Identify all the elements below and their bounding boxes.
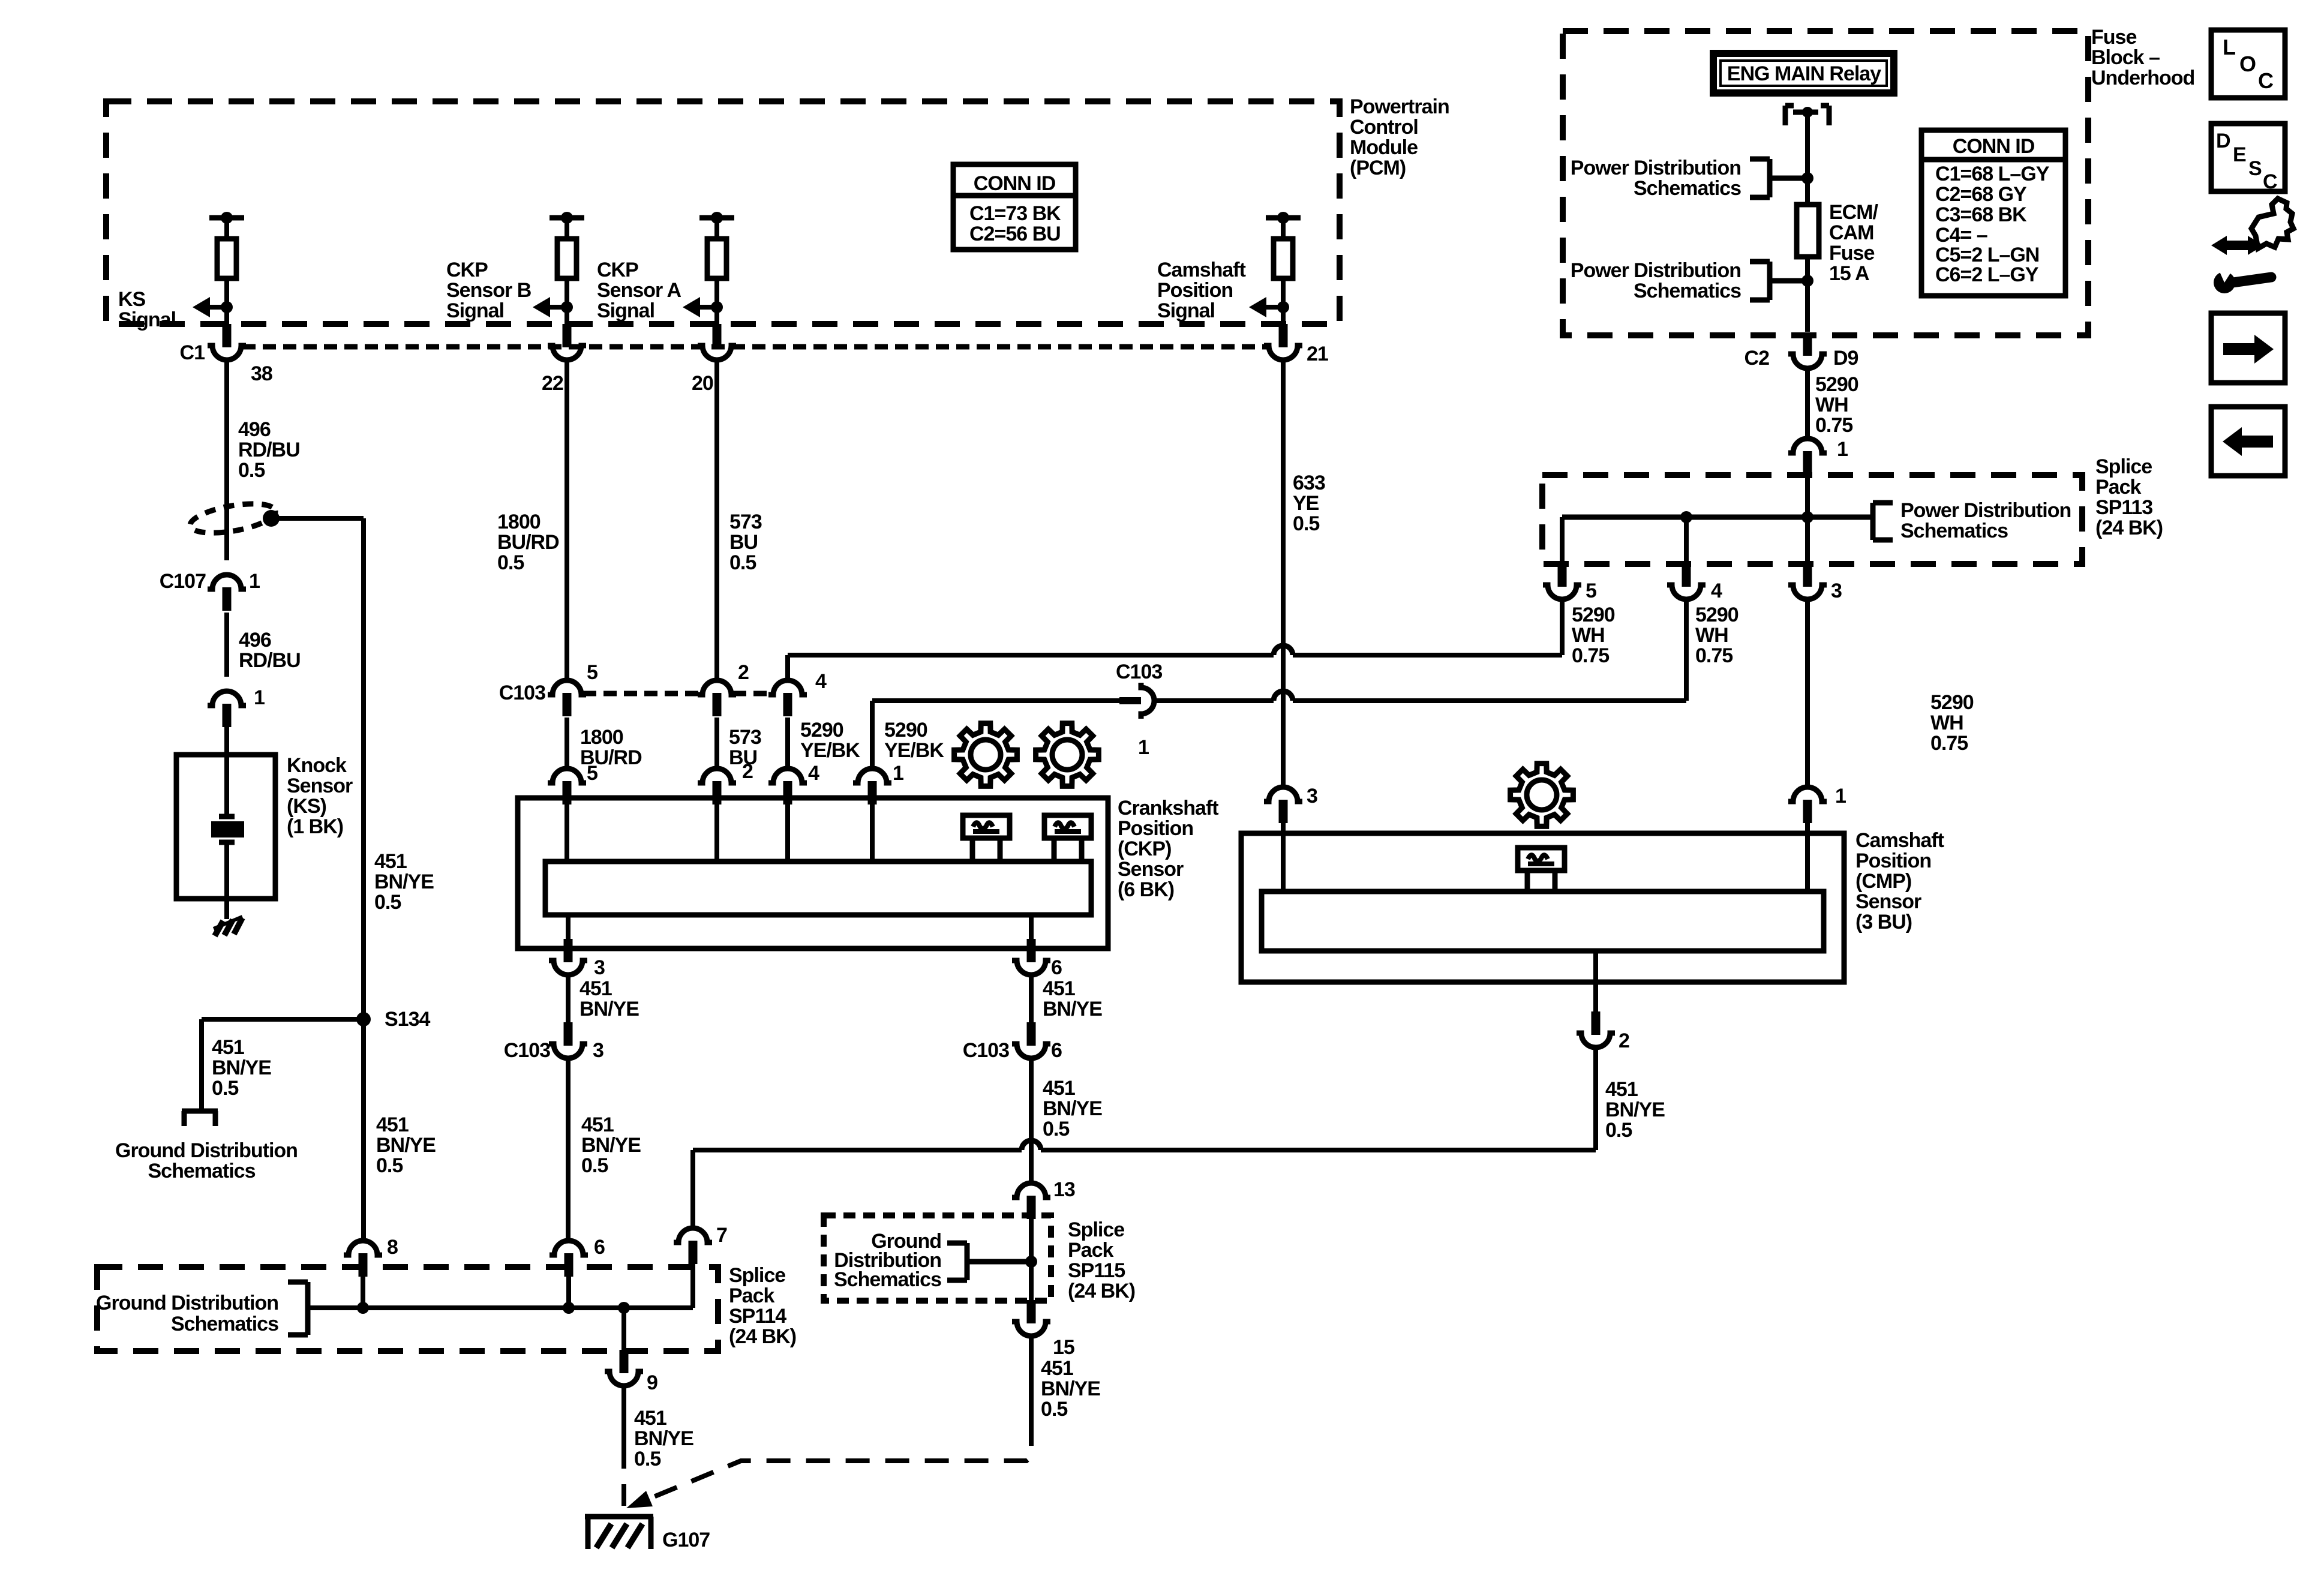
connector SP114 pin 8 — [344, 1241, 382, 1277]
connector C103 pin 1 inline — [1119, 683, 1154, 719]
svg-text:3: 3 — [594, 956, 605, 979]
label 451 BN/YE 0.5 pin15 — [1041, 1357, 1100, 1421]
label 451 BN/YE mid left — [580, 977, 639, 1020]
svg-text:6: 6 — [1051, 956, 1062, 979]
connector C103 pin 4 — [768, 680, 807, 716]
svg-text:2: 2 — [738, 661, 749, 684]
CMP pigtail pin 1 label — [1835, 785, 1846, 807]
SP115 pin 13 label — [1053, 1178, 1075, 1201]
connector SP114 pin 6 — [550, 1241, 588, 1277]
wire 633 YE — [1281, 359, 1286, 789]
wire 5290 WH top — [1805, 368, 1810, 441]
svg-text:1800: 1800 — [497, 511, 541, 533]
wire SP113 pin3 top — [1805, 517, 1810, 564]
ground ref half box — [182, 1111, 218, 1126]
svg-text:633: 633 — [1293, 472, 1325, 494]
svg-text:WH: WH — [1815, 394, 1848, 416]
svg-text:BN/YE: BN/YE — [1605, 1098, 1665, 1121]
wire CMP pin2 to SP114 pin7 — [693, 1047, 1596, 1230]
svg-text:2: 2 — [742, 760, 753, 783]
DESC icon box — [2211, 124, 2285, 193]
connector CMP pin 2 out — [1577, 1011, 1615, 1047]
svg-text:WH: WH — [1930, 712, 1963, 734]
SP115 pin 15 label — [1053, 1336, 1074, 1359]
ENG MAIN Relay box — [1710, 50, 1897, 97]
svg-text:0.5: 0.5 — [376, 1154, 403, 1177]
SP114 bus dot 6 — [563, 1302, 575, 1314]
svg-text:0.75: 0.75 — [1815, 414, 1852, 437]
wire to C103 pin6 — [1029, 975, 1034, 1022]
svg-text:(24 BK): (24 BK) — [1068, 1280, 1135, 1302]
svg-text:451: 451 — [581, 1113, 614, 1136]
svg-text:Crankshaft: Crankshaft — [1118, 797, 1218, 819]
connector CKP pigtail pin 5 — [548, 769, 586, 804]
svg-text:5: 5 — [1586, 580, 1596, 602]
label 451 BN/YE 0.5 right of KS — [374, 850, 434, 914]
svg-text:CONN ID: CONN ID — [1953, 135, 2035, 158]
svg-text:1: 1 — [1138, 736, 1149, 759]
svg-text:451: 451 — [212, 1036, 244, 1059]
svg-text:451: 451 — [1605, 1078, 1638, 1101]
wire into knock sensor — [224, 727, 229, 757]
wire pigtail 5 into CKP — [565, 803, 569, 864]
svg-text:4: 4 — [808, 762, 819, 785]
SP114 bus dot 8 — [357, 1302, 369, 1314]
CMP pin 2 out label — [1619, 1029, 1629, 1052]
pin 21 label — [1307, 343, 1328, 365]
crankshaft gear icon 1 — [954, 724, 1017, 786]
C103 pin 5 label — [587, 661, 597, 684]
svg-text:5290: 5290 — [1930, 691, 1974, 714]
svg-text:0.5: 0.5 — [374, 891, 401, 914]
Camshaft Position Signal label — [1157, 259, 1246, 322]
SP114 bus dot 9 — [618, 1302, 630, 1314]
wire pin4 lower — [785, 718, 790, 771]
svg-text:Signal: Signal — [1157, 299, 1215, 322]
wire pin7 to bus — [690, 1264, 695, 1308]
connector SP113 pin 4 — [1667, 563, 1706, 599]
SP114 label — [729, 1264, 796, 1348]
svg-text:Ground Distribution: Ground Distribution — [115, 1139, 298, 1162]
junction dot 2 — [1801, 275, 1813, 287]
ECM/CAM fuse — [1797, 205, 1819, 257]
svg-text:Schematics: Schematics — [1900, 520, 2008, 542]
svg-text:0.75: 0.75 — [1930, 732, 1968, 755]
KS pigtail pin 1 label — [254, 686, 265, 709]
label 5290 WH 0.75 pin4 — [1695, 604, 1739, 667]
SP113 label — [2095, 455, 2163, 539]
svg-text:YE: YE — [1293, 492, 1319, 515]
svg-text:5290: 5290 — [1695, 604, 1739, 626]
svg-text:496: 496 — [239, 629, 271, 652]
CONN ID box PCM — [953, 164, 1076, 250]
svg-text:496: 496 — [238, 418, 271, 441]
wire C103-3 to SP114 pin6 — [566, 1058, 571, 1243]
connector CKP pigtail pin 4 — [768, 769, 807, 804]
svg-text:G107: G107 — [662, 1529, 710, 1551]
shield drain dot — [263, 510, 280, 527]
label 451 BN/YE 0.5 at S134 — [212, 1036, 271, 1100]
svg-text:C1=73 BK: C1=73 BK — [969, 202, 1061, 225]
connector C1 pin 38 — [208, 324, 246, 360]
CMP pin 2 exit wire — [1593, 951, 1598, 1014]
pigtail pin 5 label — [587, 762, 597, 785]
wire pigtail 1 into CKP — [870, 803, 875, 864]
svg-text:1: 1 — [254, 686, 265, 709]
svg-text:Control: Control — [1350, 116, 1418, 139]
SP115 label — [1068, 1218, 1135, 1302]
svg-text:20: 20 — [692, 372, 713, 395]
svg-text:8: 8 — [387, 1236, 398, 1259]
wire pin6 to bus — [566, 1277, 571, 1308]
SP113 pin 1 label — [1837, 438, 1848, 461]
wire into SP113 — [1805, 474, 1810, 517]
LOC icon box — [2211, 30, 2285, 98]
svg-text:SP114: SP114 — [729, 1305, 786, 1328]
C103 pin 4 label — [815, 670, 827, 693]
wire 1800 BU/RD upper — [565, 359, 569, 683]
dashed wire SP115 to G107 — [626, 1422, 1031, 1508]
svg-text:1: 1 — [1837, 438, 1848, 461]
CKP heated element 1 — [963, 815, 1010, 860]
wire pin 9 down — [621, 1385, 626, 1447]
svg-text:Splice: Splice — [729, 1264, 785, 1287]
svg-text:CONN ID: CONN ID — [974, 172, 1056, 195]
svg-text:0.5: 0.5 — [1605, 1119, 1632, 1142]
Fuse Block label — [2091, 26, 2194, 89]
SP114 pin 7 label — [716, 1224, 727, 1247]
svg-text:1: 1 — [249, 570, 260, 593]
KS chassis ground — [214, 917, 242, 936]
svg-text:15: 15 — [1053, 1336, 1074, 1359]
svg-text:Sensor A: Sensor A — [597, 279, 681, 302]
connector CKP pigtail pin 1 — [853, 769, 891, 804]
svg-text:Sensor: Sensor — [1118, 858, 1184, 881]
connector CKP pigtail pin 2 — [698, 769, 736, 804]
svg-text:(24 BK): (24 BK) — [2095, 517, 2163, 539]
Power Distribution bracket 2 — [1750, 262, 1807, 300]
svg-text:C: C — [2258, 68, 2274, 93]
label 5290 YE/BK pin1 — [884, 719, 944, 762]
svg-text:Power Distribution: Power Distribution — [1900, 499, 2071, 522]
svg-text:D9: D9 — [1833, 347, 1858, 370]
svg-text:0.5: 0.5 — [238, 459, 265, 482]
svg-text:C6=2 L–GY: C6=2 L–GY — [1935, 263, 2039, 286]
CMP label — [1855, 829, 1944, 933]
svg-text:Camshaft: Camshaft — [1855, 829, 1944, 852]
svg-text:Schematics: Schematics — [834, 1268, 941, 1291]
svg-text:BN/YE: BN/YE — [1043, 998, 1102, 1020]
svg-text:451: 451 — [1043, 1077, 1075, 1100]
ECM CAM Fuse label — [1829, 201, 1879, 285]
piezo element — [211, 755, 244, 919]
connector SP115 pin 13 — [1012, 1183, 1050, 1219]
S134 label — [385, 1008, 430, 1031]
Knock Sensor label — [287, 754, 353, 838]
wire 5290 WH to CMP pin1 — [1805, 599, 1810, 789]
C107 label — [160, 570, 206, 593]
svg-text:CKP: CKP — [446, 259, 488, 281]
C2 label — [1744, 347, 1770, 370]
C1 label — [180, 341, 205, 364]
svg-text:0.5: 0.5 — [634, 1448, 660, 1470]
svg-text:0.5: 0.5 — [581, 1154, 608, 1177]
svg-text:Pack: Pack — [1068, 1239, 1113, 1262]
SP113 bus dot 4 — [1680, 511, 1692, 523]
Ground Distribution bracket SP114 — [288, 1282, 308, 1335]
wire 5290 YE/BK pin4 vertical — [785, 655, 790, 683]
dashed wire to G107 — [621, 1447, 626, 1514]
svg-text:3: 3 — [593, 1039, 603, 1062]
CKP pin 6 exit wire — [1029, 915, 1034, 941]
svg-text:Pack: Pack — [729, 1284, 774, 1307]
svg-text:(CKP): (CKP) — [1118, 837, 1171, 860]
relay contact — [1785, 106, 1829, 125]
svg-text:Position: Position — [1118, 817, 1193, 840]
svg-text:451: 451 — [1041, 1357, 1073, 1380]
svg-text:573: 573 — [729, 726, 761, 749]
label 5290 WH 0.75 pin5 — [1572, 604, 1615, 667]
wire pin8 to bus — [361, 1277, 365, 1308]
CKP sensor outer box — [518, 798, 1108, 948]
svg-text:S134: S134 — [385, 1008, 430, 1031]
svg-text:0.5: 0.5 — [1293, 512, 1319, 535]
connector C2 pin D9 — [1788, 332, 1827, 368]
CKP heated element 2 — [1044, 815, 1091, 860]
svg-text:Schematics: Schematics — [1634, 280, 1741, 302]
PCM module dashed box — [106, 101, 1340, 324]
diagnostic icon — [2211, 199, 2293, 293]
svg-text:L: L — [2223, 35, 2236, 59]
junction dot 1 — [1801, 172, 1813, 184]
connector SP113 pin 1 — [1788, 439, 1827, 475]
svg-text:(KS): (KS) — [287, 795, 326, 818]
C1 connector dotted line — [242, 344, 1267, 350]
svg-text:C2=68 GY: C2=68 GY — [1935, 183, 2027, 206]
C103 label at pin6 — [963, 1039, 1009, 1062]
svg-text:573: 573 — [729, 511, 762, 533]
hop over 633 wire lower — [1274, 691, 1293, 701]
svg-text:5290: 5290 — [1572, 604, 1615, 626]
connector C103 pin 6 — [1012, 1022, 1050, 1058]
CMP pigtail pin 3 label — [1307, 785, 1317, 807]
hop over 633 wire upper — [1274, 646, 1293, 655]
svg-text:ENG MAIN Relay: ENG MAIN Relay — [1727, 62, 1881, 85]
pin 38 label — [251, 362, 272, 385]
wire 496 RD/BU upper — [224, 359, 229, 560]
svg-text:451: 451 — [580, 977, 612, 1000]
svg-text:Pack: Pack — [2095, 476, 2141, 499]
label 5290 YE/BK pin4 — [800, 719, 860, 762]
svg-text:Block –: Block – — [2091, 46, 2160, 69]
connector C103 pin 3 — [549, 1022, 587, 1058]
svg-text:CKP: CKP — [597, 259, 638, 281]
svg-text:D: D — [2216, 130, 2231, 152]
Power Distribution bracket SP113 — [1562, 503, 1893, 540]
pigtail pin 1 label — [893, 762, 903, 785]
Ground Distribution Schematics label S134 — [115, 1139, 298, 1182]
svg-text:Schematics: Schematics — [1634, 177, 1741, 200]
svg-text:6: 6 — [1051, 1039, 1062, 1062]
label 496 RD/BU 0.5 — [238, 418, 300, 482]
wire to C103 pin3 — [566, 975, 571, 1022]
svg-text:3: 3 — [1831, 580, 1842, 602]
G107 label — [662, 1529, 710, 1551]
svg-text:Knock: Knock — [287, 754, 347, 777]
svg-text:0.5: 0.5 — [212, 1077, 238, 1100]
label 1800 BU/RD 0.5 upper — [497, 511, 559, 574]
S134 junction — [356, 1012, 371, 1026]
ground G107 — [585, 1517, 653, 1549]
svg-text:Fuse: Fuse — [2091, 26, 2136, 49]
svg-text:E: E — [2233, 143, 2247, 166]
label 5290 WH 0.75 top — [1815, 373, 1858, 437]
PCM label — [1350, 95, 1449, 179]
svg-text:Ground Distribution: Ground Distribution — [96, 1292, 278, 1314]
svg-text:BN/YE: BN/YE — [1041, 1377, 1100, 1400]
svg-text:1800: 1800 — [580, 726, 623, 749]
svg-text:Position: Position — [1855, 849, 1931, 872]
svg-text:BU/RD: BU/RD — [497, 531, 559, 554]
C103 pin 1 label — [1138, 736, 1149, 759]
svg-text:O: O — [2239, 52, 2256, 76]
wire 5290 YE/BK pin1 vertical — [870, 701, 875, 771]
camshaft gear icon — [1511, 764, 1574, 827]
connector C1 pin 22 — [548, 324, 586, 360]
svg-text:7: 7 — [716, 1224, 727, 1247]
wire CMP pin3 into sensor — [1281, 822, 1286, 894]
svg-text:38: 38 — [251, 362, 272, 385]
svg-text:(6 BK): (6 BK) — [1118, 878, 1174, 901]
SP113 bus dot 3 — [1801, 511, 1813, 523]
wire pin15 down — [1029, 1336, 1034, 1422]
CKP sensor inner bar — [545, 861, 1091, 915]
svg-text:CAM: CAM — [1829, 221, 1873, 244]
wire 573 BU lower — [714, 718, 719, 771]
svg-text:0.5: 0.5 — [729, 551, 756, 574]
SP114 pin 6 label — [594, 1236, 605, 1259]
svg-text:0.5: 0.5 — [1043, 1118, 1069, 1140]
svg-text:Fuse: Fuse — [1829, 242, 1874, 265]
label 451 BN/YE 0.5 above pin 8 — [376, 1113, 436, 1177]
C103 label — [499, 682, 545, 704]
svg-text:C107: C107 — [160, 570, 206, 593]
svg-text:451: 451 — [1043, 977, 1075, 1000]
svg-text:13: 13 — [1053, 1178, 1075, 1201]
pin 22 label — [542, 372, 563, 395]
svg-text:451: 451 — [634, 1407, 666, 1430]
connector SP115 pin 15 — [1012, 1300, 1050, 1336]
wire fuse down — [1805, 257, 1810, 332]
label 5290 WH 0.75 at CMP — [1930, 691, 1974, 755]
svg-text:C: C — [2263, 170, 2278, 193]
svg-text:0.5: 0.5 — [497, 551, 524, 574]
C103 label at pin3 — [504, 1039, 550, 1062]
Ground Distribution Schematics label SP114 — [96, 1292, 278, 1335]
svg-text:BN/YE: BN/YE — [212, 1056, 271, 1079]
CKP sensor A resistor — [683, 212, 734, 325]
Ground Distribution Schematics label SP115 — [834, 1230, 941, 1291]
svg-text:RD/BU: RD/BU — [238, 439, 300, 461]
svg-text:451: 451 — [374, 850, 407, 873]
svg-text:Camshaft: Camshaft — [1157, 259, 1246, 281]
Splice Pack SP114 dashed box — [97, 1267, 718, 1351]
C103 pin 3 label — [593, 1039, 603, 1062]
CKP pin 3 exit wire — [566, 915, 571, 941]
crankshaft gear icon 2 — [1036, 724, 1099, 786]
C103 pin 6 label — [1051, 1039, 1062, 1062]
Ground Distribution bracket SP115 — [947, 1243, 1031, 1280]
svg-text:C3=68 BK: C3=68 BK — [1935, 203, 2027, 226]
svg-text:0.75: 0.75 — [1695, 644, 1733, 667]
svg-text:5290: 5290 — [884, 719, 927, 742]
svg-text:YE/BK: YE/BK — [800, 739, 860, 762]
svg-text:Sensor: Sensor — [287, 775, 353, 797]
knock sensor KS box — [176, 755, 275, 899]
svg-text:WH: WH — [1572, 624, 1605, 647]
label 451 BN/YE mid right — [1043, 977, 1102, 1020]
label 451 BN/YE 0.5 pin9 — [634, 1407, 693, 1470]
svg-text:6: 6 — [594, 1236, 605, 1259]
svg-text:2: 2 — [1619, 1029, 1629, 1052]
connector CKP pin 3 out — [549, 939, 587, 975]
wire 1800 BU/RD lower — [565, 718, 569, 771]
label 573 BU 0.5 upper — [729, 511, 762, 574]
wire pin13 down — [1029, 1219, 1034, 1301]
SP115 junction dot — [1025, 1256, 1037, 1268]
connector CMP pigtail pin 3 — [1264, 787, 1302, 823]
svg-text:Module: Module — [1350, 136, 1418, 159]
svg-text:BN/YE: BN/YE — [374, 870, 434, 893]
hop over SP115 wire — [1022, 1140, 1041, 1150]
svg-text:Signal: Signal — [118, 308, 176, 331]
wire pigtail 4 into CKP — [785, 803, 790, 864]
connector C103 pin 5 — [548, 680, 586, 716]
connector C107 pin 1 — [208, 575, 246, 611]
svg-text:(CMP): (CMP) — [1855, 870, 1911, 893]
svg-text:(24 BK): (24 BK) — [729, 1325, 796, 1348]
svg-text:5: 5 — [587, 661, 597, 684]
svg-text:C103: C103 — [499, 682, 545, 704]
svg-text:C2=56 BU: C2=56 BU — [969, 223, 1061, 245]
svg-text:Signal: Signal — [446, 299, 504, 322]
svg-text:C2: C2 — [1744, 347, 1770, 370]
svg-text:Sensor B: Sensor B — [446, 279, 532, 302]
svg-text:5290: 5290 — [800, 719, 843, 742]
svg-text:21: 21 — [1307, 343, 1328, 365]
svg-text:0.75: 0.75 — [1572, 644, 1609, 667]
svg-text:RD/BU: RD/BU — [239, 649, 301, 672]
C103 dashed line — [583, 691, 771, 697]
next arrow icon box — [2211, 313, 2285, 383]
svg-text:WH: WH — [1695, 624, 1728, 647]
svg-text:15 A: 15 A — [1829, 262, 1869, 285]
svg-text:1: 1 — [893, 762, 903, 785]
wire relay to fuse — [1805, 115, 1810, 207]
KS Signal label — [118, 288, 176, 331]
svg-text:4: 4 — [815, 670, 827, 693]
CKP pin 3 out label — [594, 956, 605, 979]
svg-text:YE/BK: YE/BK — [884, 739, 944, 762]
CKP Sensor B Signal label — [446, 259, 532, 322]
svg-text:BU: BU — [729, 531, 758, 554]
svg-text:Powertrain: Powertrain — [1350, 95, 1449, 118]
label 496 RD/BU lower — [239, 629, 301, 672]
wire pigtail 2 into CKP — [714, 803, 719, 864]
connector CMP pigtail pin 1 — [1788, 787, 1827, 823]
svg-text:Position: Position — [1157, 279, 1233, 302]
connector C1 pin 21 — [1264, 324, 1302, 360]
